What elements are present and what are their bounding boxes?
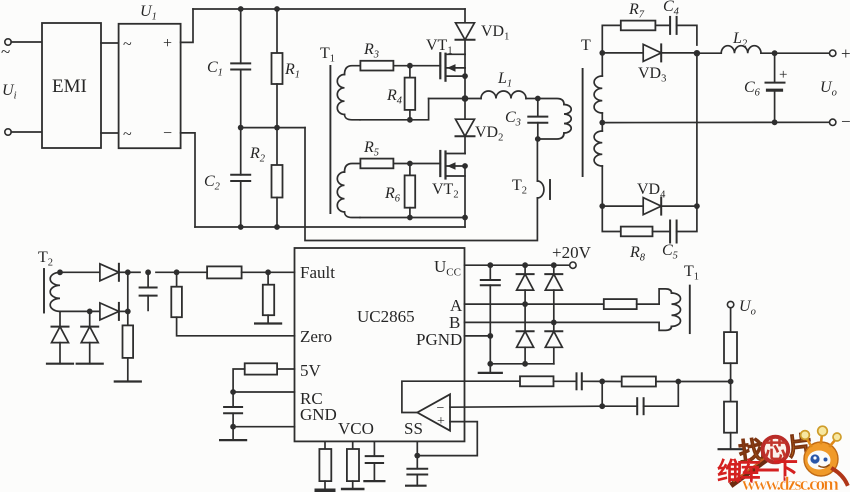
diode D1 fault rectifier top: [100, 264, 128, 281]
diode VD3: [602, 44, 697, 61]
winding T2 secondary: [50, 272, 60, 311]
transistor VT1: [440, 53, 465, 80]
wire PGND to clamp rail: [489, 336, 491, 364]
node junction C1 top: [238, 6, 244, 12]
label + output: [841, 44, 850, 63]
svg-text:~: ~: [1, 42, 10, 61]
node junction C7 tap: [145, 269, 151, 275]
label R5: [363, 139, 379, 159]
label VD4: [637, 181, 666, 201]
label T2 sense winding: [38, 249, 53, 269]
node junction comp mid bottom: [599, 403, 605, 409]
resistor R9 sense load: [123, 311, 134, 381]
diode D5 clamp A high: [517, 265, 534, 304]
node junction R5-R6: [407, 161, 413, 167]
resistor R2: [272, 128, 283, 227]
winding T primary: [538, 99, 571, 140]
wire VT1 source down to phase node: [464, 68, 466, 99]
resistor R13 5V to RC: [233, 363, 294, 392]
node junction comp mid top: [599, 379, 605, 385]
wire bottom bus (- rail): [195, 226, 465, 228]
label R6: [384, 185, 401, 205]
wire rectifier + to top bus: [181, 9, 193, 42]
wire A output: [465, 303, 604, 305]
node junction PGND: [487, 333, 493, 339]
wire rectified node vertical: [696, 53, 698, 206]
wire clamp bottom rail: [490, 363, 554, 365]
label Uo output voltage: [820, 79, 837, 99]
node junction VT2 source-bottom wire: [462, 215, 468, 221]
resistor R6: [405, 164, 416, 218]
wire PGND pin: [465, 335, 491, 337]
wire error amp feedback: [402, 381, 465, 412]
wire rectifier - down to bottom bus: [181, 133, 195, 227]
svg-text:C4: C4: [663, 0, 680, 18]
node junction clamp D5: [522, 262, 528, 268]
node junction R10 tap: [174, 269, 180, 275]
node input terminal bottom (AC in): [5, 129, 42, 135]
inductor L1: [481, 91, 526, 98]
label VT1: [426, 37, 453, 57]
label R1: [284, 61, 300, 81]
label T1 gate transformer: [320, 45, 335, 65]
svg-text:Fault: Fault: [300, 263, 335, 282]
resistor R16 compensation: [520, 376, 577, 386]
capacitor C6 electrolytic: [766, 53, 788, 122]
wire upper cell bottom to phase node: [360, 99, 429, 120]
wire B output: [465, 321, 660, 323]
node junction Ucc cap: [487, 262, 493, 268]
node junction R1 top: [274, 6, 280, 12]
label L1: [497, 70, 512, 90]
rectifier U1 block: [119, 24, 181, 148]
svg-text:+: +: [779, 67, 787, 83]
node junction B clamp: [551, 320, 557, 326]
capacitor C11 compensation: [577, 373, 603, 389]
node junction C1-C2: [238, 125, 244, 131]
svg-text:PGND: PGND: [416, 330, 462, 349]
svg-text:www.dzsc.com: www.dzsc.com: [742, 474, 839, 492]
wire fault node: [128, 271, 177, 273]
resistor R18 divider upper: [724, 308, 737, 382]
capacitor C8 timing: [224, 392, 242, 427]
node junction D1 cathode: [125, 269, 131, 275]
svg-text:VD4: VD4: [637, 181, 666, 201]
wire phase node horizontal: [429, 98, 481, 100]
node junction T2 top: [57, 269, 63, 275]
svg-text:R8: R8: [629, 244, 646, 264]
node junction C6 top: [772, 50, 778, 56]
resistor R15 VCO: [347, 441, 359, 488]
svg-text:+: +: [841, 44, 850, 63]
svg-text:+: +: [163, 35, 172, 52]
svg-text:T: T: [581, 37, 591, 54]
label T1 drive transformer: [684, 263, 699, 283]
transformer T2 current sense primary: [537, 139, 550, 199]
label ~ AC input: [1, 42, 10, 61]
resistor R19 divider lower: [724, 382, 737, 450]
svg-text:Uo: Uo: [739, 298, 756, 318]
ground R15: [342, 488, 363, 491]
svg-text:+: +: [437, 414, 445, 429]
label VD1: [481, 23, 509, 43]
node junction VT2 arrow: [462, 163, 468, 169]
capacitor C10 soft start: [407, 456, 427, 486]
node junction C2 bottom: [238, 224, 244, 230]
ground divider: [719, 448, 743, 450]
snubber R8 C5 branch: [602, 206, 697, 242]
svg-text:L2: L2: [732, 30, 748, 50]
node junction R6 bottom: [407, 215, 413, 221]
wire output - rail: [602, 121, 829, 123]
label T2 current transformer: [512, 177, 527, 197]
node junction clamp rail mid: [522, 361, 528, 367]
node junction clamp rail left: [487, 361, 493, 367]
node junction VD3 cathode: [694, 50, 700, 56]
wire Ucc supply: [465, 264, 570, 266]
transistor VT2: [440, 151, 465, 179]
svg-text:Zero: Zero: [300, 327, 332, 346]
svg-text:VD3: VD3: [638, 65, 666, 85]
capacitor C13 Ucc bypass: [481, 265, 500, 336]
wire T2 top to D1: [60, 271, 100, 273]
capacitor C12 compensation: [602, 382, 678, 415]
label R4: [386, 87, 403, 107]
wire D1-D2 cathodes join: [127, 272, 129, 311]
capacitor C1: [231, 9, 250, 128]
label C4: [663, 0, 680, 18]
winding T secondary upper: [594, 53, 602, 123]
wire EMI to rectifier top: [101, 42, 119, 44]
winding T1 drive primary: [659, 289, 680, 331]
svg-text:~: ~: [123, 126, 132, 143]
svg-text:T1: T1: [684, 263, 699, 283]
diode D7 clamp A low: [517, 304, 534, 364]
svg-text:5V: 5V: [300, 361, 322, 380]
label - output: [841, 112, 850, 131]
diode D3 clamp left: [52, 311, 69, 363]
svg-text:VT2: VT2: [432, 181, 459, 201]
op-amp U2 error amplifier box IC UC2865: [295, 248, 465, 441]
capacitor C9 VCO: [366, 441, 383, 481]
wire comp mid vertical: [601, 381, 603, 406]
label C2: [204, 173, 221, 193]
diode D4 clamp right: [81, 311, 98, 363]
svg-text:C5: C5: [662, 242, 678, 262]
wire T2 bottom row: [60, 310, 100, 312]
label +20V: [552, 243, 592, 262]
resistor R1: [272, 9, 283, 128]
capacitor C3: [528, 99, 547, 140]
ground R14: [317, 489, 334, 492]
winding T1 lower feedback: [337, 164, 360, 218]
resistor R12 fault divider: [263, 272, 274, 323]
resistor R11 fault series: [177, 266, 295, 278]
node junction A clamp: [522, 301, 528, 307]
node junction D3 anode tap: [87, 309, 93, 315]
label Uo sense: [739, 298, 756, 318]
capacitor C2: [231, 128, 250, 227]
svg-text:C3: C3: [505, 109, 521, 129]
label Ui input voltage: [2, 82, 17, 102]
diode D8 clamp B low: [545, 322, 562, 363]
diode VD1: [456, 9, 475, 54]
label VD3: [638, 65, 666, 85]
resistor R3: [360, 61, 440, 71]
svg-text:−: −: [841, 112, 850, 131]
svg-text:U1: U1: [140, 3, 157, 23]
svg-text:−: −: [163, 125, 172, 142]
resistor R17 compensation: [602, 377, 678, 387]
node Uo sense terminal: [727, 301, 733, 307]
winding T secondary lower: [594, 123, 602, 207]
ground D3: [47, 363, 73, 365]
node junction C6 bottom: [772, 119, 778, 125]
node junction GND-C8: [230, 424, 236, 430]
node junction R12 tap: [265, 269, 271, 275]
node junction secondary top: [599, 50, 605, 56]
wire comp to divider: [678, 381, 731, 383]
node junction VD4 cathode: [694, 203, 700, 209]
label T transformer: [581, 37, 591, 54]
wire L2 to output +: [761, 52, 830, 54]
node junction secondary bottom: [599, 203, 605, 209]
svg-text:SS: SS: [404, 419, 423, 438]
diode D2 fault rectifier bottom: [100, 303, 128, 320]
wire EMI to rectifier bottom: [101, 132, 119, 134]
node junction C3 bottom: [535, 136, 541, 142]
ground clamp rail: [479, 364, 502, 373]
svg-text:EMI: EMI: [52, 76, 87, 97]
ground R12: [255, 322, 281, 324]
core T2 secondary: [43, 269, 45, 313]
svg-text:R2: R2: [249, 145, 266, 165]
svg-text:R7: R7: [628, 1, 645, 21]
wire SS pin down: [416, 441, 418, 455]
ground R9: [115, 380, 141, 382]
watermark dzsc logo: [717, 426, 847, 492]
svg-text:C6: C6: [744, 79, 761, 99]
svg-text:Ui: Ui: [2, 82, 17, 102]
inductor L2: [697, 46, 761, 53]
node junction SS: [414, 453, 420, 459]
wire error amp + input loop: [420, 422, 477, 456]
node junction R4 bottom: [407, 117, 413, 123]
node junction center tap: [599, 120, 605, 126]
svg-text:R6: R6: [384, 185, 401, 205]
resistor R14 VCO: [319, 441, 331, 489]
node junction R1-R2: [274, 125, 280, 131]
svg-text:R1: R1: [284, 61, 300, 81]
node output terminal +: [830, 50, 836, 56]
wire lower cell bottom to VT2 source: [360, 217, 465, 219]
svg-text:T1: T1: [320, 45, 335, 65]
node output terminal -: [830, 119, 836, 125]
wire VT1 drain to VD1: [464, 54, 466, 68]
node phase node junction: [462, 95, 469, 102]
wire L1 to C3 node: [526, 98, 538, 100]
wire resonant return (mid rail to T2 primary): [305, 128, 537, 241]
svg-text:VD1: VD1: [481, 23, 509, 43]
resistor R4: [405, 66, 416, 120]
node junction comp out top: [675, 379, 681, 385]
snubber R7 C4 branch: [602, 17, 697, 53]
svg-text:C2: C2: [204, 173, 221, 193]
label VD2: [475, 124, 503, 144]
svg-text:UC2865: UC2865: [357, 307, 415, 326]
ground GND pin: [220, 427, 246, 440]
svg-text:R5: R5: [363, 139, 379, 159]
svg-text:GND: GND: [300, 405, 337, 424]
resistor R20 gate drive: [604, 299, 659, 309]
svg-text:~: ~: [123, 36, 132, 53]
svg-text:C1: C1: [207, 59, 223, 79]
EMI filter block: [42, 23, 101, 148]
node junction D2 cathode: [125, 309, 131, 315]
label U1 rectifier: [140, 3, 157, 23]
wire EA inverting input line: [450, 406, 602, 407]
node junction VT1 source: [462, 73, 468, 79]
label C5: [662, 242, 678, 262]
node junction clamp D6: [551, 262, 557, 268]
label C1: [207, 59, 223, 79]
diode D6 clamp B high: [545, 265, 562, 322]
svg-text:VCO: VCO: [338, 419, 374, 438]
svg-text:T2: T2: [38, 249, 53, 269]
ground D4: [77, 363, 103, 365]
core transformer T: [582, 69, 584, 176]
svg-text:L1: L1: [497, 70, 512, 90]
resistor R5: [360, 159, 440, 169]
label C6: [744, 79, 761, 99]
wire GND pin: [233, 426, 294, 428]
wire EA output line: [465, 380, 521, 382]
svg-text:VT1: VT1: [426, 37, 453, 57]
diode VD4: [602, 198, 697, 215]
wire mid rail (C1/C2 junction): [241, 127, 305, 129]
core T1 drive: [689, 286, 691, 334]
node +20V terminal: [570, 262, 576, 268]
svg-text:R3: R3: [363, 41, 379, 61]
node junction RC-C8: [230, 389, 236, 395]
svg-text:R4: R4: [386, 87, 403, 107]
label C3: [505, 109, 521, 129]
node input terminal top (AC in): [5, 39, 42, 45]
label L2: [732, 30, 748, 50]
svg-text:Uo: Uo: [820, 79, 837, 99]
op-amp error amplifier: [417, 394, 450, 430]
svg-text:VD2: VD2: [475, 124, 503, 144]
ground C10: [406, 485, 425, 487]
wire VT2 source down to bottom bus: [464, 154, 466, 228]
label R3: [363, 41, 379, 61]
ground C9: [364, 480, 384, 482]
svg-text:+20V: +20V: [552, 243, 592, 262]
winding T1 upper feedback: [337, 66, 360, 120]
label R8: [629, 244, 646, 264]
core T1 left: [329, 66, 331, 213]
node junction R2 bottom: [274, 224, 280, 230]
wire RC pin: [233, 391, 294, 393]
label R2: [249, 145, 266, 165]
diode VD2: [456, 99, 475, 154]
node junction R3-R4: [407, 63, 413, 69]
node junction divider: [728, 379, 734, 385]
capacitor C7 fault filter: [140, 272, 157, 310]
label R7: [628, 1, 645, 21]
wire top bus (+ rail): [193, 8, 465, 10]
node junction C3 top: [535, 96, 541, 102]
resistor R10 to Zero pin: [171, 272, 294, 336]
svg-text:T2: T2: [512, 177, 527, 197]
label VT2: [432, 181, 459, 201]
